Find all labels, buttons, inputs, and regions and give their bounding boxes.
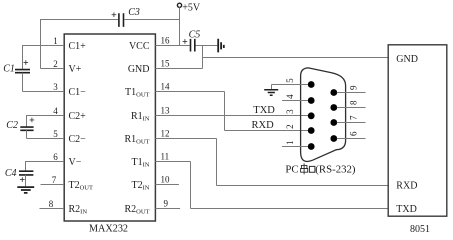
svg-text:6: 6 <box>53 152 58 162</box>
svg-text:12: 12 <box>161 129 170 139</box>
wire T1IN down <box>190 162 192 209</box>
wire C1 to pin3 <box>22 73 24 92</box>
wire stub DB9 pin 6 <box>337 138 366 140</box>
svg-text:R1IN: R1IN <box>131 111 150 123</box>
wire pin1 C1+ <box>23 45 65 47</box>
svg-text:1: 1 <box>285 140 295 145</box>
wire pin15 GND <box>155 68 202 70</box>
wire ground drop <box>271 85 273 90</box>
svg-text:C2−: C2− <box>69 134 87 145</box>
polarity + of C2 <box>30 118 35 123</box>
wire stub DB9 pin 8 <box>337 107 366 109</box>
wire stub pin8 R2IN <box>40 208 65 210</box>
svg-text:T1OUT: T1OUT <box>125 87 149 99</box>
+5V supply terminal <box>177 3 181 7</box>
svg-text:7: 7 <box>349 115 359 120</box>
wire down to C4 <box>25 161 27 171</box>
svg-text:C1: C1 <box>3 63 15 74</box>
microcontroller 8051 box <box>388 45 447 216</box>
svg-text:9: 9 <box>164 199 169 209</box>
DB9 pin 7 dot <box>330 119 337 126</box>
wire stub DB9 pin4 <box>282 100 308 102</box>
ground right of C5 (rotated) <box>218 39 224 53</box>
wire pin2 V+ <box>41 68 65 70</box>
svg-text:9: 9 <box>349 85 359 90</box>
svg-text:8: 8 <box>49 199 54 209</box>
svg-text:3: 3 <box>285 109 295 114</box>
svg-text:C4: C4 <box>5 168 17 179</box>
svg-text:VCC: VCC <box>129 41 150 52</box>
wire pin6 V- <box>26 161 65 163</box>
wire V+ riser <box>40 19 42 69</box>
wire stub DB9 pin1 <box>282 146 308 148</box>
svg-text:2: 2 <box>285 124 295 129</box>
svg-text:C2: C2 <box>6 120 18 131</box>
svg-text:5: 5 <box>53 129 58 139</box>
svg-text:RXD: RXD <box>252 120 275 131</box>
wire T1OUT to DB9 pin2 <box>225 130 309 132</box>
wire pin13 R1IN to DB9 pin3 <box>155 115 308 117</box>
polarity + of C1 <box>24 60 29 65</box>
op-amp U1 MAX232 chip body <box>64 34 155 221</box>
wire pin4 C2+ <box>27 115 65 117</box>
svg-text:C3: C3 <box>128 7 140 18</box>
svg-text:MAX232: MAX232 <box>89 224 128 235</box>
svg-text:7: 7 <box>52 175 57 185</box>
svg-text:T1IN: T1IN <box>132 157 150 169</box>
svg-text:1: 1 <box>53 36 58 46</box>
DB9 pin 9 dot <box>330 89 337 96</box>
wire R1OUT down <box>216 139 218 186</box>
svg-text:14: 14 <box>161 82 171 92</box>
svg-text:RXD: RXD <box>396 181 417 192</box>
wire pin11 T1IN <box>155 161 190 163</box>
wire stub DB9 pin 7 <box>337 122 366 124</box>
svg-text:C5: C5 <box>189 29 201 40</box>
svg-text:T2OUT: T2OUT <box>69 180 93 192</box>
svg-text:16: 16 <box>161 36 171 46</box>
svg-text:(RS-232): (RS-232) <box>315 164 356 176</box>
wire C5 to ground <box>196 45 219 47</box>
svg-text:11: 11 <box>161 152 170 162</box>
svg-text:13: 13 <box>161 106 171 116</box>
wire pin5 C2- <box>27 138 65 140</box>
wire T1OUT down <box>224 92 226 131</box>
svg-text:TXD: TXD <box>253 105 275 116</box>
svg-text:GND: GND <box>396 54 418 65</box>
svg-text:5: 5 <box>285 78 295 83</box>
svg-text:V+: V+ <box>69 64 82 75</box>
capacitor C1 <box>15 70 30 73</box>
wire down to C1 <box>22 45 24 70</box>
ground below C4 <box>17 187 34 193</box>
polarity + of C4 <box>20 177 25 182</box>
capacitor C3 <box>119 13 124 27</box>
svg-text:4: 4 <box>53 106 58 116</box>
DB9 pin 6 dot <box>330 135 337 142</box>
DB9 pin 2 dot <box>308 127 315 134</box>
svg-text:15: 15 <box>161 59 171 69</box>
svg-text:C1−: C1− <box>69 87 87 98</box>
DB9 pin 4 dot <box>308 97 315 104</box>
glyph chuan (serial) <box>301 163 308 174</box>
wire pin3 C1- <box>23 91 65 93</box>
svg-text:4: 4 <box>285 94 295 99</box>
DB9 connector outline PC serial port <box>301 68 346 162</box>
capacitor C4 <box>19 171 33 175</box>
svg-text:10: 10 <box>161 175 171 185</box>
wire DB9 pin5 to ground <box>272 84 308 86</box>
glyph kou (port) <box>309 166 315 172</box>
svg-text:C1+: C1+ <box>69 41 87 52</box>
svg-text:GND: GND <box>128 64 150 75</box>
svg-text:R2OUT: R2OUT <box>124 204 149 216</box>
wire stub pin9 R2OUT <box>155 208 180 210</box>
wire stub DB9 pin 9 <box>337 92 366 94</box>
svg-text:8: 8 <box>349 100 359 105</box>
svg-text:C2+: C2+ <box>69 111 87 122</box>
svg-text:+5V: +5V <box>182 2 201 13</box>
svg-text:R1OUT: R1OUT <box>124 134 149 146</box>
wire down to C2 <box>26 115 28 127</box>
wire pin14 T1OUT <box>155 91 224 93</box>
DB9 pin 3 dot <box>308 112 315 119</box>
wire pin12 R1OUT <box>155 138 216 140</box>
capacitor C2 <box>20 127 33 130</box>
wire C4 to ground <box>25 175 27 187</box>
svg-text:PC: PC <box>285 164 298 176</box>
svg-text:3: 3 <box>53 82 58 92</box>
ground at DB9 pin 5 <box>264 90 278 96</box>
svg-text:2: 2 <box>53 59 58 69</box>
DB9 pin 5 dot <box>308 81 315 88</box>
wire +5V down to VCC <box>179 7 181 45</box>
wire R1OUT to 8051 RXD <box>217 185 389 187</box>
wire stub pin10 T2IN <box>155 184 179 186</box>
DB9 pin 1 dot <box>308 143 315 150</box>
capacitor C5 <box>191 39 195 52</box>
polarity + of C3 <box>112 12 117 17</box>
wire T1IN to 8051 TXD <box>191 208 389 210</box>
svg-text:T2IN: T2IN <box>132 180 150 192</box>
wire GND to 8051 <box>203 57 389 59</box>
wire GND node down <box>202 46 204 69</box>
wire C3 to +5V <box>124 19 180 21</box>
svg-text:R2IN: R2IN <box>69 204 88 216</box>
svg-text:6: 6 <box>349 131 359 136</box>
svg-text:TXD: TXD <box>396 204 417 215</box>
svg-text:V−: V− <box>69 157 82 168</box>
wire to C3 <box>41 19 119 21</box>
DB9 pin 8 dot <box>330 104 337 111</box>
wire C2 to pin5 <box>26 130 28 138</box>
wire pin16 VCC to C5 <box>155 45 189 47</box>
wire stub pin7 T2OUT <box>41 184 65 186</box>
polarity + of C5 <box>183 39 188 44</box>
svg-text:8051: 8051 <box>410 224 430 235</box>
